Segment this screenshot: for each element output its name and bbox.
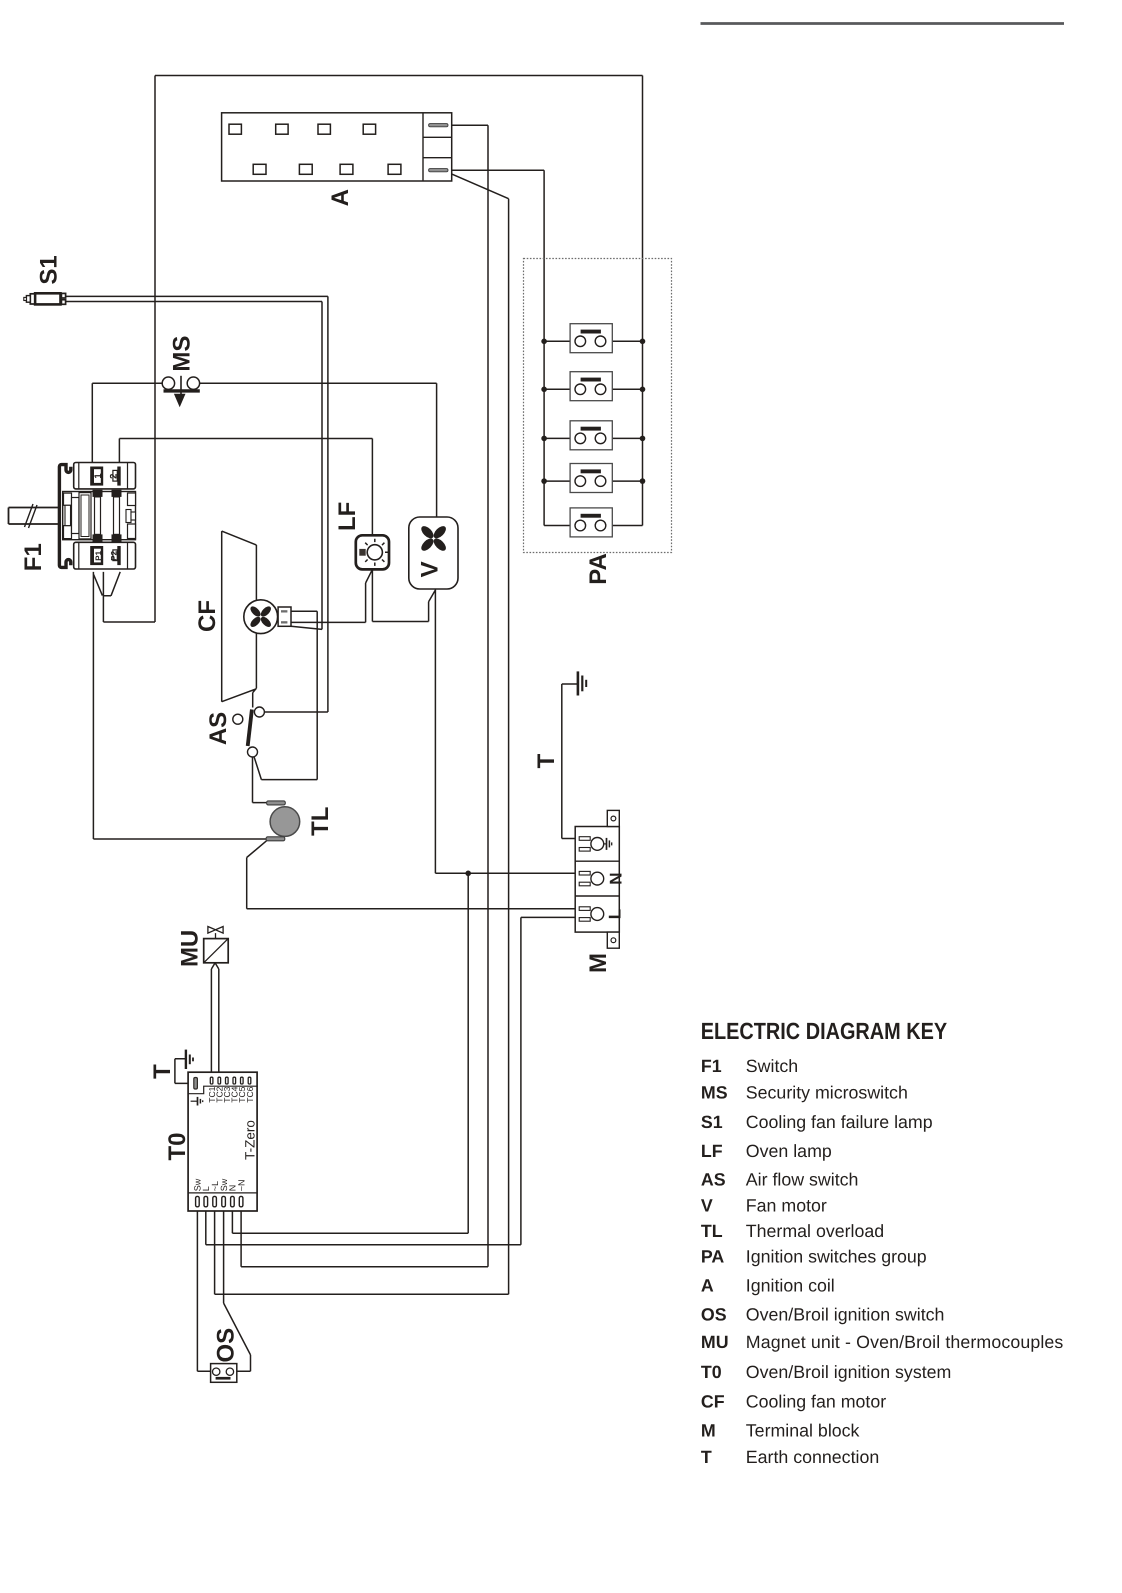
svg-text:Thermal overload: Thermal overload	[746, 1221, 884, 1241]
svg-text:N: N	[607, 872, 626, 884]
svg-text:CF: CF	[194, 600, 221, 632]
svg-text:TC6: TC6	[245, 1086, 255, 1102]
svg-text:PA: PA	[701, 1247, 725, 1267]
svg-text:P1: P1	[94, 550, 103, 560]
svg-text:Earth connection: Earth connection	[746, 1447, 879, 1467]
svg-text:~N: ~N	[236, 1180, 246, 1192]
svg-text:T: T	[533, 753, 560, 768]
svg-text:V: V	[701, 1195, 713, 1215]
svg-text:AS: AS	[205, 712, 232, 745]
svg-text:MS: MS	[168, 336, 195, 372]
svg-text:T: T	[701, 1447, 712, 1467]
svg-text:Security microswitch: Security microswitch	[746, 1082, 908, 1102]
svg-text:CF: CF	[701, 1392, 725, 1412]
svg-text:M: M	[701, 1421, 716, 1441]
svg-text:F1: F1	[20, 543, 47, 571]
svg-text:LF: LF	[701, 1141, 723, 1161]
svg-text:MU: MU	[177, 930, 204, 967]
svg-text:Cooling fan motor: Cooling fan motor	[746, 1392, 886, 1412]
svg-text:PA: PA	[585, 553, 612, 585]
svg-text:V: V	[417, 561, 444, 577]
svg-text:AS: AS	[701, 1170, 726, 1190]
svg-text:S1: S1	[701, 1112, 723, 1132]
svg-text:T0: T0	[164, 1132, 191, 1160]
svg-text:Fan motor: Fan motor	[746, 1195, 827, 1215]
svg-text:M: M	[585, 953, 612, 973]
svg-text:T: T	[149, 1064, 176, 1079]
svg-text:Terminal block: Terminal block	[746, 1421, 860, 1441]
svg-text:A: A	[327, 189, 354, 206]
svg-text:Switch: Switch	[746, 1056, 798, 1076]
svg-text:T0: T0	[701, 1362, 722, 1382]
svg-text:Ignition switches group: Ignition switches group	[746, 1247, 927, 1267]
svg-text:Ignition coil: Ignition coil	[746, 1275, 835, 1295]
svg-text:T-Zero: T-Zero	[242, 1120, 257, 1160]
svg-text:1: 1	[93, 473, 104, 479]
svg-text:Oven lamp: Oven lamp	[746, 1141, 832, 1161]
svg-text:MU: MU	[701, 1332, 729, 1352]
svg-text:A: A	[701, 1275, 714, 1295]
svg-text:MS: MS	[701, 1082, 728, 1102]
svg-text:F1: F1	[701, 1056, 722, 1076]
svg-text:Oven/Broil ignition switch: Oven/Broil ignition switch	[746, 1304, 945, 1324]
svg-text:2: 2	[108, 474, 119, 479]
svg-text:OS: OS	[701, 1304, 727, 1324]
svg-text:LF: LF	[334, 502, 361, 531]
svg-text:P2: P2	[109, 550, 118, 560]
svg-text:TL: TL	[307, 807, 334, 836]
svg-text:Magnet unit - Oven/Broil ther: Magnet unit - Oven/Broil thermocouples	[746, 1332, 1064, 1352]
svg-text:OS: OS	[213, 1328, 240, 1363]
svg-text:TL: TL	[701, 1221, 723, 1241]
svg-text:L: L	[606, 909, 625, 919]
svg-text:Oven/Broil ignition system: Oven/Broil ignition system	[746, 1362, 952, 1382]
svg-text:ELECTRIC DIAGRAM KEY: ELECTRIC DIAGRAM KEY	[701, 1018, 948, 1044]
svg-text:Cooling fan failure lamp: Cooling fan failure lamp	[746, 1112, 933, 1132]
svg-text:S1: S1	[36, 255, 63, 284]
svg-text:Air flow switch: Air flow switch	[746, 1170, 859, 1190]
